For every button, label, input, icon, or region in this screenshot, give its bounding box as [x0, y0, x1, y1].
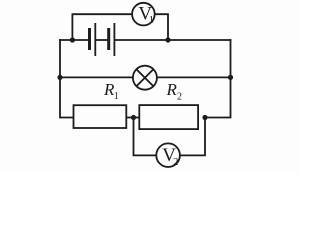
wire right rail down to node B	[205, 40, 231, 118]
lamp EL1 circle	[133, 66, 157, 90]
battery GB1 cell1 negative plate	[88, 28, 91, 50]
wire between R1 and R2	[127, 117, 139, 119]
node B: right of R2	[202, 115, 207, 120]
svg-text:1: 1	[149, 14, 155, 26]
wire V2 branch right drop	[181, 118, 205, 156]
wire battery-row right segment to right rail	[115, 39, 230, 41]
node: lamp branch right junction	[228, 75, 233, 80]
wire battery-row left segment	[60, 39, 88, 41]
wire lamp branch left	[60, 76, 132, 78]
resistor R2 box	[139, 105, 198, 129]
node A: between R1 and R2	[131, 115, 136, 120]
svg-text:2: 2	[177, 91, 182, 102]
wire V2 branch left drop	[134, 118, 156, 156]
node: lamp branch left junction	[57, 75, 62, 80]
resistor R1 box	[74, 105, 127, 128]
node: V1 branch left junction	[70, 37, 75, 42]
wire V1 branch left riser	[72, 14, 131, 40]
node: V1 branch right junction	[165, 37, 170, 42]
lamp EL1 cross	[136, 69, 153, 86]
wire left rail down to R1	[60, 40, 73, 118]
svg-text:1: 1	[114, 91, 119, 102]
svg-text:R: R	[166, 80, 178, 99]
battery GB1 cell2 negative plate	[107, 28, 110, 50]
svg-text:2: 2	[173, 156, 179, 168]
battery GB1 cell1 positive plate	[94, 23, 96, 56]
wire lamp branch right	[158, 76, 231, 78]
wire V1 branch right riser	[156, 14, 168, 40]
voltmeter V2 circle	[156, 143, 180, 167]
voltmeter V1 circle	[132, 3, 155, 26]
battery GB1 cell2 positive plate	[114, 23, 116, 56]
wire between cells	[96, 39, 107, 41]
